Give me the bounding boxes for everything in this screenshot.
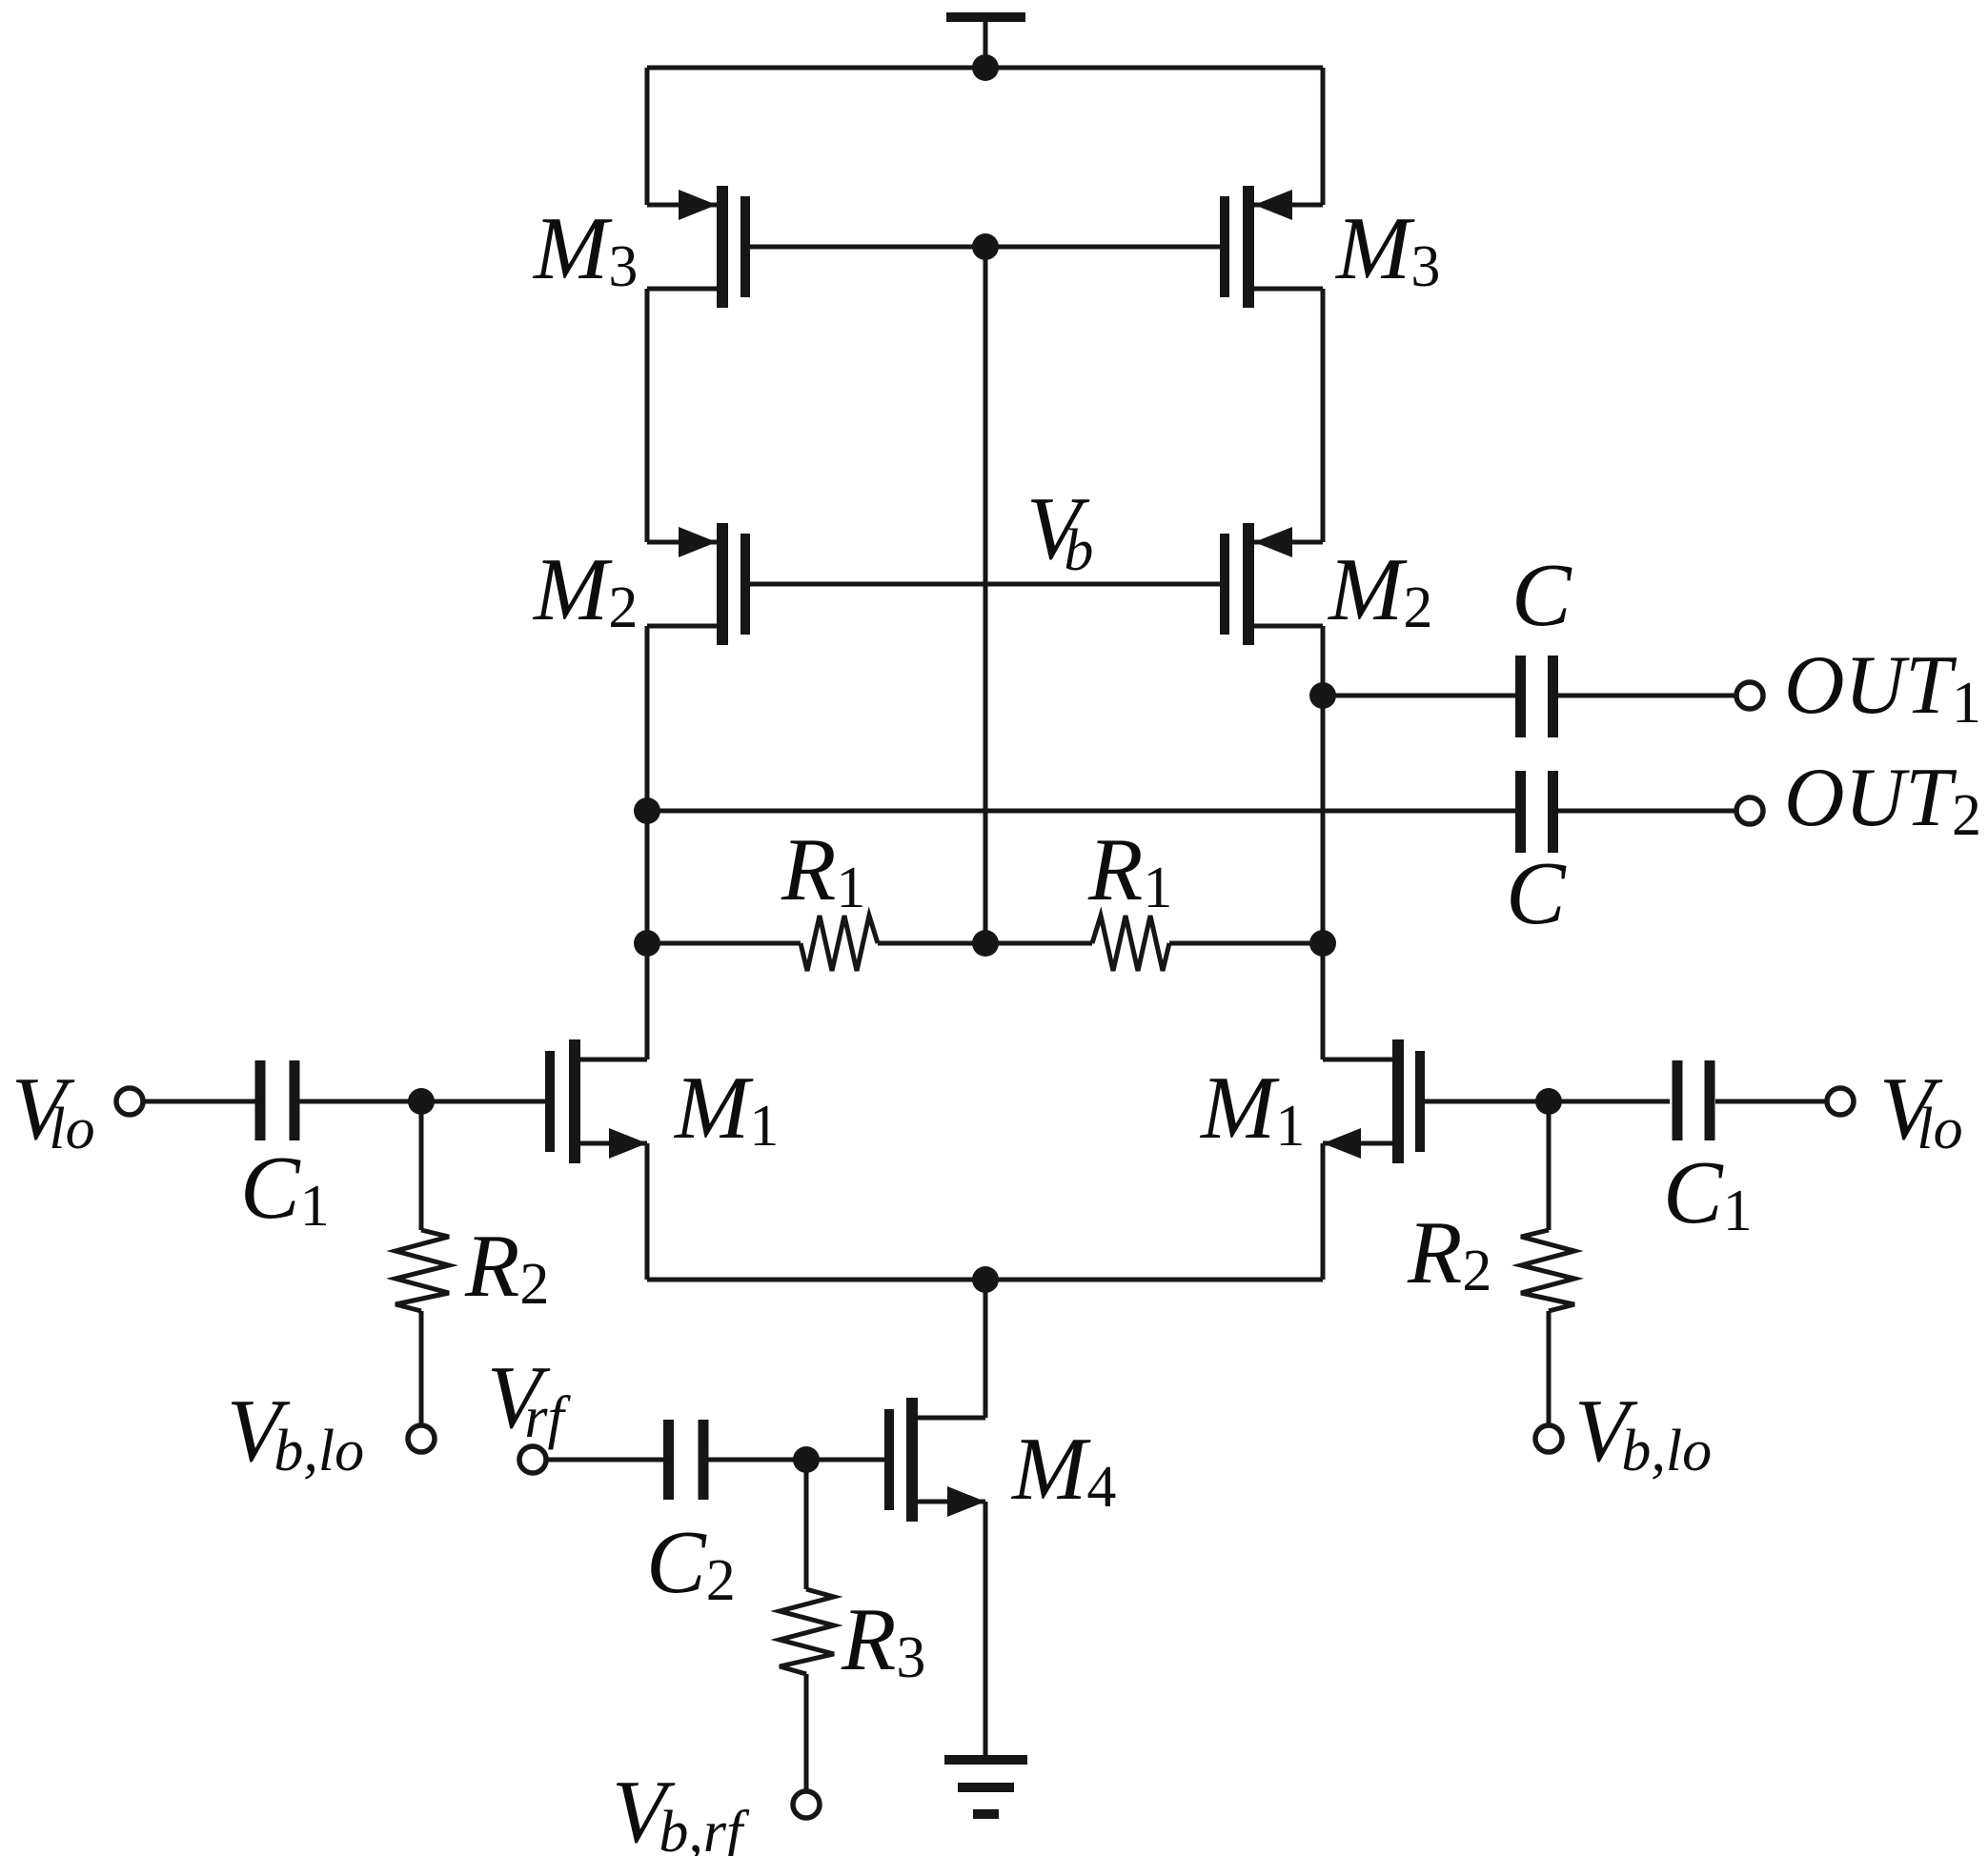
svg-text:OUT1: OUT1	[1784, 639, 1981, 736]
svg-text:C: C	[1506, 844, 1567, 943]
svg-text:OUT2: OUT2	[1784, 752, 1981, 848]
svg-text:C: C	[1511, 546, 1572, 645]
